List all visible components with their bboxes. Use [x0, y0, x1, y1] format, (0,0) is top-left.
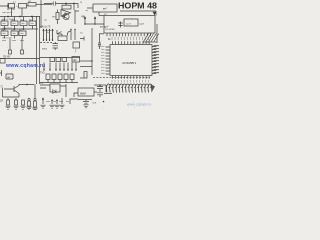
wire — [87, 7, 93, 9]
IC U5 bottom pins — [113, 76, 150, 79]
inductor L1 winding — [106, 84, 151, 92]
wire — [61, 98, 63, 104]
switch S1 — [50, 58, 55, 62]
resistor R10 — [7, 100, 10, 105]
resistor R1 — [28, 3, 36, 6]
junction — [31, 16, 33, 18]
wire stub — [65, 4, 67, 6]
resistor R12 — [22, 100, 25, 105]
svg-text:Юг: Юг — [41, 83, 44, 85]
component value marks row2 — [3, 32, 24, 34]
ground — [5, 106, 10, 109]
ground — [32, 108, 37, 111]
component X2 row2 — [11, 31, 18, 36]
svg-text:лф: лф — [44, 19, 47, 22]
resistor R9 — [84, 72, 87, 79]
wire arrow up 2 — [94, 17, 96, 24]
wire input net — [0, 3, 8, 10]
svg-text:ЦЧУ: ЦЧУ — [140, 24, 145, 26]
capacitor C11 — [97, 85, 103, 92]
junction — [23, 28, 25, 30]
wire rail 2 — [0, 28, 38, 30]
ground — [83, 105, 88, 108]
component X3 row1 — [20, 21, 27, 26]
wire stub — [65, 80, 67, 83]
wire stub — [53, 80, 55, 83]
wire — [27, 5, 29, 7]
block G2 — [93, 4, 117, 12]
wire under hatch — [143, 41, 157, 43]
arrowhead — [52, 29, 54, 31]
crystal ZQ1 — [118, 22, 122, 28]
svg-text:7В УВ: 7В УВ — [3, 56, 10, 59]
block left edge — [0, 59, 5, 64]
wire drop 2 — [49, 63, 51, 72]
svg-text:у86 0э 7Л: у86 0э 7Л — [40, 27, 51, 29]
module U4 bottom pins — [107, 33, 150, 36]
hatched shield block — [144, 34, 159, 42]
junction — [59, 69, 60, 70]
wire to connector — [9, 39, 11, 51]
svg-text:КВАР: КВАР — [80, 92, 87, 95]
wire stub — [59, 80, 61, 83]
junction — [19, 16, 21, 18]
wire bus line 2 — [39, 16, 41, 84]
block U2a — [73, 42, 80, 48]
connector XS2 — [21, 50, 24, 54]
wire R1 to C1 — [36, 3, 52, 5]
wire stub — [22, 36, 24, 39]
wire drop 8 — [75, 63, 77, 72]
junction — [56, 100, 58, 102]
junction — [91, 60, 93, 62]
junction — [94, 23, 96, 25]
wire stub up left — [11, 8, 13, 17]
wire vertical feed — [40, 0, 42, 28]
svg-text:0э: 0э — [47, 32, 49, 34]
junction — [51, 100, 53, 102]
wire bus line 1 — [36, 16, 38, 84]
block A1 — [9, 4, 15, 9]
wire arrow down net — [42, 98, 44, 104]
junction — [4, 28, 6, 30]
junction — [7, 16, 9, 18]
wire right edge — [156, 24, 158, 43]
wire stub — [23, 17, 25, 22]
wire to coil — [105, 85, 107, 92]
component X1 row1 — [1, 21, 8, 26]
arrowhead — [49, 29, 51, 31]
wire harness 1 — [43, 30, 45, 42]
wire stub — [4, 26, 6, 30]
junction — [74, 29, 75, 30]
ground — [49, 105, 54, 108]
junction — [99, 84, 101, 86]
wire module left tap — [99, 33, 104, 35]
block row B2 — [52, 74, 56, 80]
curve wire — [67, 31, 71, 36]
resistor R8 ladder — [98, 34, 101, 50]
component X2 row1 — [11, 21, 18, 26]
scan noise speckles — [1, 4, 156, 107]
arrow marker — [153, 12, 157, 15]
capacitor C9 — [28, 98, 30, 100]
junction — [84, 23, 86, 25]
wire corner — [74, 93, 78, 97]
wire stub — [4, 36, 6, 39]
wire — [98, 12, 100, 16]
svg-text:с1 пд ув об: с1 пд ув об — [2, 27, 12, 29]
crystal module ZQ2 — [78, 88, 94, 96]
block TsM — [72, 57, 80, 63]
ground — [20, 106, 25, 109]
wire stub — [23, 26, 25, 30]
resistor R11 — [15, 100, 18, 105]
switch S3 — [62, 58, 67, 62]
block DV — [6, 74, 13, 79]
IC U5 left pins — [106, 47, 111, 74]
wire bus drop — [34, 84, 36, 98]
wire top link — [94, 84, 106, 86]
wire drop 3 — [55, 63, 57, 72]
wire with corner — [75, 10, 79, 24]
svg-text:www.cqham.ru: www.cqham.ru — [127, 103, 152, 107]
wire arrow up 1 — [84, 17, 86, 24]
wire rail 3b — [40, 57, 80, 59]
transistor Q1 leads — [62, 14, 69, 20]
junction — [14, 28, 16, 30]
svg-text:www.cqham.ru: www.cqham.ru — [5, 63, 45, 69]
ground — [54, 105, 59, 108]
arrowhead — [43, 29, 45, 31]
junction — [49, 69, 50, 70]
tiny dash bottom labels — [46, 101, 69, 103]
wire — [99, 15, 104, 17]
svg-text:ПРД: ПРД — [10, 7, 15, 11]
wire emitter net — [3, 88, 20, 98]
wire — [80, 66, 92, 68]
block row B4 — [64, 74, 68, 80]
wire — [54, 42, 56, 50]
ground — [26, 107, 31, 110]
wire — [15, 98, 17, 100]
capacitor C10 — [34, 98, 36, 100]
svg-text:ЧX2 тХ ПВ ИЗ: ЧX2 тХ ПВ ИЗ — [2, 19, 15, 21]
wire rail 3 — [0, 58, 40, 60]
wire corner 2 — [70, 99, 78, 104]
wire — [57, 10, 59, 25]
ground — [40, 105, 45, 108]
IC U5 bottom pin labels — [112, 80, 149, 83]
wire coil base — [104, 93, 112, 95]
wire drop 4 — [59, 63, 61, 72]
IC U5 body — [110, 45, 152, 76]
block VD2 — [50, 84, 60, 92]
junction — [55, 69, 56, 70]
wire from title rail — [120, 11, 156, 16]
wire stub — [32, 26, 34, 30]
capacitor C12 — [97, 93, 103, 97]
wire — [1, 70, 3, 76]
IC U5 right pins — [152, 47, 156, 74]
node A — [7, 5, 9, 7]
block row B1 — [46, 74, 50, 80]
wire rail 4 — [40, 82, 78, 84]
wire — [7, 98, 9, 100]
junction — [73, 3, 75, 5]
inductor L1 terminal — [151, 84, 156, 93]
wire rail 1 — [0, 16, 40, 18]
wire stub up left 2 — [21, 8, 23, 17]
svg-text:ТУО: ТУО — [40, 73, 45, 75]
IC U5 right pin labels — [154, 46, 160, 73]
transistor Q2 — [4, 86, 19, 94]
resistor R14 — [34, 101, 37, 107]
junction — [49, 39, 50, 40]
tiny dash marks row1 — [2, 20, 33, 22]
switch S2 — [56, 58, 61, 62]
junction — [43, 69, 44, 70]
wire stub — [32, 17, 34, 22]
svg-text:кР1815ВГ1: кР1815ВГ1 — [123, 61, 137, 65]
block A2 — [19, 4, 27, 9]
ground — [13, 106, 18, 109]
wire tap — [80, 37, 84, 41]
junction — [52, 39, 53, 40]
capacitor C6 stack — [53, 44, 59, 48]
junction — [26, 84, 28, 86]
wire dashed link — [40, 42, 52, 44]
svg-text:ЗУ: ЗУ — [0, 99, 4, 103]
wire — [80, 77, 84, 79]
ground — [59, 105, 64, 108]
switch SA1 — [57, 30, 62, 36]
wire dashed net — [93, 76, 150, 78]
wire drop 5 — [63, 63, 65, 72]
junction — [63, 69, 64, 70]
transistor Q1 — [63, 13, 69, 19]
svg-text:КР-ЧСЕУ: КР-ЧСЕУ — [106, 29, 116, 31]
svg-text:тлф прм кв: тлф прм кв — [2, 11, 12, 14]
wire pair — [71, 30, 75, 41]
wire long vertical — [91, 28, 93, 75]
wire stub — [14, 17, 16, 22]
block row B3 — [58, 74, 62, 80]
tiny dash marks row2 — [2, 40, 24, 42]
svg-text:плсх: плсх — [42, 49, 48, 51]
wire — [94, 91, 97, 93]
capacitor C5 — [53, 2, 55, 6]
resistor R13 — [28, 101, 31, 106]
block G1 — [58, 36, 67, 41]
diode VD2 symbol — [53, 90, 57, 94]
block row B5 — [70, 74, 74, 80]
component X4 row1 — [29, 21, 36, 26]
wire — [60, 84, 66, 97]
op-amp U1 — [61, 10, 71, 17]
junction — [65, 3, 67, 5]
wire — [51, 100, 53, 104]
svg-text:ПЛ2 СЛ ТВ: ПЛ2 СЛ ТВ — [2, 38, 12, 40]
wire stub — [71, 80, 73, 83]
wire harness 4 — [52, 30, 54, 42]
arrowhead — [46, 29, 48, 31]
wire drop 6 — [67, 63, 69, 72]
wire bottom — [78, 99, 92, 101]
junction — [75, 69, 76, 70]
wire drop 7 — [71, 63, 73, 72]
IC U5 top pins — [113, 41, 150, 44]
wire collector net — [19, 85, 34, 98]
capacitor C13 — [83, 100, 89, 104]
block DA1 — [62, 5, 71, 9]
IC U5 left pin labels — [101, 46, 105, 73]
wire harness 2 — [46, 30, 48, 42]
wire stub — [14, 26, 16, 30]
wire rail to module — [85, 23, 104, 25]
wire top net — [44, 3, 78, 5]
wire to connector — [21, 39, 23, 51]
connector XS1 — [9, 50, 12, 54]
junction — [70, 29, 71, 30]
junction — [43, 39, 44, 40]
module U4 — [104, 16, 155, 34]
wire stub — [14, 36, 16, 39]
component X3 row2 — [19, 31, 26, 36]
junction — [71, 69, 72, 70]
wire stub — [47, 80, 49, 83]
svg-text:НОРМ 48: НОРМ 48 — [118, 0, 157, 10]
svg-text:Ц 4.7: Ц 4.7 — [126, 23, 132, 25]
wire harness 3 — [49, 30, 51, 42]
wire drop 1 — [43, 63, 45, 72]
wire pair left — [40, 85, 50, 88]
node B — [103, 101, 105, 103]
wire — [80, 60, 92, 62]
IC U5 top pin labels — [112, 37, 149, 40]
wire stub — [4, 17, 6, 22]
junction — [46, 39, 47, 40]
component X1 row2 — [1, 31, 8, 36]
wire drops — [74, 4, 78, 11]
block U4 inner — [124, 19, 138, 26]
wire — [56, 100, 58, 104]
svg-text:ЦМ: ЦМ — [73, 60, 77, 62]
junction — [67, 69, 68, 70]
resistor R3 — [56, 13, 59, 20]
component value marks row1 — [3, 22, 34, 24]
